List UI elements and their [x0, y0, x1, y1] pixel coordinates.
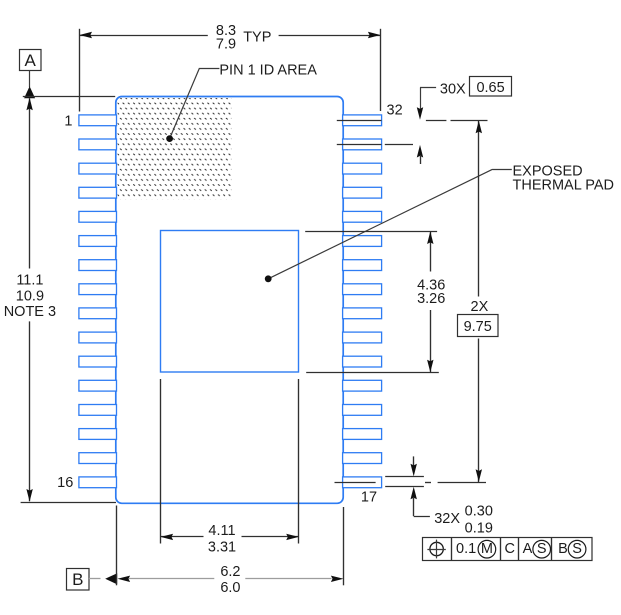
svg-text:S: S	[572, 541, 582, 557]
svg-text:A: A	[523, 541, 533, 557]
svg-text:TYP: TYP	[243, 29, 271, 45]
svg-text:7.9: 7.9	[216, 36, 236, 52]
svg-text:2X: 2X	[471, 299, 489, 315]
svg-text:0.19: 0.19	[465, 520, 493, 536]
svg-text:30X: 30X	[440, 82, 466, 98]
svg-text:9.75: 9.75	[464, 319, 492, 335]
svg-text:3.26: 3.26	[417, 291, 445, 307]
svg-text:0.1: 0.1	[456, 541, 476, 557]
svg-text:S: S	[537, 541, 547, 557]
svg-text:0.30: 0.30	[465, 503, 493, 519]
svg-text:PIN 1 ID AREA: PIN 1 ID AREA	[219, 62, 317, 78]
svg-text:4.11: 4.11	[208, 523, 235, 539]
svg-text:B: B	[72, 570, 83, 589]
svg-text:32X: 32X	[434, 511, 460, 527]
svg-text:3.31: 3.31	[208, 540, 236, 556]
svg-text:B: B	[558, 541, 568, 557]
svg-text:1: 1	[64, 114, 72, 130]
svg-text:32: 32	[387, 103, 403, 119]
svg-text:17: 17	[361, 489, 377, 505]
svg-text:C: C	[504, 541, 514, 557]
svg-text:6.2: 6.2	[220, 564, 240, 580]
svg-text:11.1: 11.1	[16, 273, 43, 289]
svg-text:10.9: 10.9	[16, 288, 44, 304]
svg-text:NOTE 3: NOTE 3	[4, 304, 56, 320]
svg-text:16: 16	[57, 475, 73, 491]
svg-text:6.0: 6.0	[220, 580, 240, 596]
svg-text:THERMAL PAD: THERMAL PAD	[513, 177, 615, 193]
svg-text:0.65: 0.65	[476, 80, 504, 96]
svg-text:A: A	[25, 51, 37, 70]
svg-text:M: M	[481, 541, 493, 557]
